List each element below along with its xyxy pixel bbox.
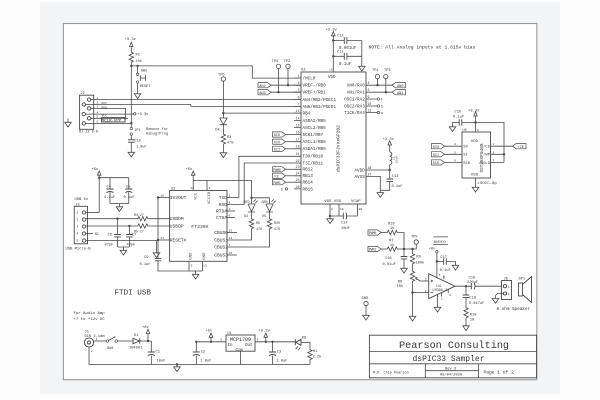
svg-text:VSS: VSS [334, 200, 342, 204]
svg-text:TP1: TP1 [372, 69, 379, 73]
connector J1 barrel jack [84, 331, 105, 348]
wire to D1 [117, 340, 133, 342]
capacitor C12 0.001uF [333, 35, 362, 52]
IC bottom pin stubs [330, 204, 363, 216]
power +3.3v [125, 38, 137, 51]
capacitor C1 10uF [148, 341, 166, 365]
svg-text:+3.3v: +3.3v [326, 29, 338, 33]
svg-text:Com: Com [236, 349, 244, 353]
capacitor C4 4.7uF [104, 185, 115, 203]
wire pin4 to +3.3v tap [86, 113, 134, 115]
svg-text:2: 2 [229, 207, 231, 211]
flag AN3 [258, 90, 271, 96]
svg-text:CBUS2: CBUS2 [214, 245, 228, 251]
capacitor C16 0.01uF [383, 249, 408, 273]
svg-text:+3.3v: +3.3v [125, 38, 137, 42]
capacitor C10 1.0uF [128, 140, 147, 151]
flag PWM0 pin23 [273, 167, 295, 172]
svg-text:5: 5 [298, 88, 300, 92]
power +3.3v tap [259, 330, 271, 343]
title block frame [369, 335, 536, 378]
svg-text:PGD: PGD [102, 106, 108, 110]
svg-text:17: 17 [296, 138, 300, 142]
node C11 tap [332, 55, 334, 57]
svg-text:C3: C3 [277, 350, 281, 354]
power +5v tap [206, 330, 214, 343]
svg-text:U5: U5 [463, 129, 467, 133]
svg-text:PWM1: PWM1 [369, 248, 377, 252]
svg-text:AVDD: AVDD [354, 168, 365, 173]
ground AVSS [377, 190, 384, 197]
svg-text:+3.3v: +3.3v [138, 113, 150, 117]
svg-text:LM386-3: LM386-3 [432, 289, 447, 293]
svg-text:470: 470 [274, 227, 280, 231]
resistor R1 2.2k [308, 348, 322, 364]
svg-text:ASCL1/RB8: ASCL1/RB8 [303, 140, 327, 145]
svg-text:27: 27 [368, 172, 372, 176]
svg-text:C16: C16 [385, 257, 392, 261]
svg-text:Remove for: Remove for [146, 127, 168, 132]
svg-text:PWM0: PWM0 [369, 231, 377, 235]
test point TP2 [284, 60, 291, 85]
svg-text:0.1uF: 0.1uF [440, 269, 451, 273]
svg-text:VCC: VCC [195, 192, 199, 200]
net label MCLR-VPP [102, 118, 126, 124]
resistor R20 470 [267, 218, 280, 231]
wire 3V3OUT [158, 198, 170, 259]
svg-text:OSC1/RA2: OSC1/RA2 [344, 97, 365, 102]
node LED rail [250, 197, 252, 199]
wire WP HOLD pullup [476, 123, 506, 163]
svg-text:R6: R6 [256, 221, 260, 225]
svg-text:47pF: 47pF [105, 243, 114, 247]
flag AN0 [392, 83, 406, 89]
flag SCK to SCK [432, 160, 463, 166]
svg-text:AN1/RA1: AN1/RA1 [347, 91, 365, 96]
svg-text:R2: R2 [136, 54, 140, 58]
svg-text:1k: 1k [390, 226, 395, 231]
ground left of C15 [449, 125, 456, 132]
svg-text:C12: C12 [337, 35, 344, 39]
svg-text:1: 1 [77, 212, 79, 215]
jumper JP1 [130, 127, 140, 139]
svg-text:SIO: SIO [274, 141, 280, 145]
capacitor C2 1.0uF [193, 341, 212, 365]
power +3.3v above U2 [326, 29, 338, 37]
svg-text:AN2: AN2 [259, 85, 265, 89]
svg-text:0.1uF: 0.1uF [392, 185, 403, 189]
svg-text:+5v: +5v [206, 330, 214, 334]
connector J3 USB [74, 203, 87, 244]
svg-text:15: 15 [229, 229, 233, 233]
svg-text:J2: J2 [81, 92, 85, 96]
svg-text:USBDM: USBDM [170, 216, 184, 222]
svg-text:470: 470 [227, 142, 234, 146]
svg-text:10uF: 10uF [341, 227, 350, 231]
svg-text:2: 2 [77, 219, 79, 222]
svg-text:3: 3 [425, 278, 427, 281]
svg-text:+8v: +8v [429, 247, 436, 251]
svg-text:4: 4 [298, 81, 300, 85]
svg-text:1: 1 [96, 338, 98, 341]
svg-text:FTDI USB: FTDI USB [115, 290, 152, 298]
svg-text:U2: U2 [301, 69, 306, 73]
svg-text:R19: R19 [388, 222, 395, 226]
svg-text:T1CK/RA4: T1CK/RA4 [344, 111, 365, 116]
svg-text:TXD: TXD [219, 195, 228, 201]
svg-text:3V3OUT: 3V3OUT [170, 195, 187, 201]
svg-text:7: 7 [493, 159, 495, 162]
svg-text:OSC2/RA3: OSC2/RA3 [344, 104, 365, 109]
svg-text:CBUS0: CBUS0 [214, 230, 228, 236]
svg-text:RTS#: RTS# [216, 209, 227, 215]
svg-text:SW2: SW2 [141, 69, 147, 73]
node mix [403, 248, 405, 250]
svg-text:4: 4 [229, 200, 231, 204]
svg-text:AN3: AN3 [259, 92, 265, 96]
stub NC pin4 [86, 232, 99, 236]
pushbutton SW2 RESET [134, 66, 150, 99]
capacitor C18 0.047uF [463, 286, 485, 306]
svg-text:0.1uF: 0.1uF [124, 196, 135, 200]
svg-text:T3I/RB11: T3I/RB11 [303, 161, 324, 166]
svg-text:220uF: 220uF [467, 281, 478, 285]
pin4 VSS ground [472, 178, 479, 192]
svg-text:R8: R8 [416, 255, 420, 259]
svg-text:C7: C7 [132, 234, 136, 238]
svg-text:3: 3 [368, 88, 370, 92]
svg-text:+7 to +12v DC: +7 to +12v DC [74, 318, 106, 322]
svg-text:19: 19 [340, 208, 344, 211]
svg-text:D8: D8 [302, 336, 306, 340]
speaker SP1 [519, 277, 532, 303]
U3 ground pins [189, 261, 203, 279]
svg-text:M.D. Chip Pearson: M.D. Chip Pearson [373, 371, 409, 376]
wire J3 pin1 [86, 212, 100, 214]
svg-text:C2: C2 [201, 350, 205, 354]
ground below C10 [128, 150, 135, 157]
test point TP2b [384, 69, 391, 92]
flag AN2 [258, 83, 271, 89]
op-amp U4 LM386 [425, 274, 455, 301]
capacitor C6 47pF [105, 218, 121, 248]
svg-text:2: 2 [91, 350, 93, 353]
svg-text:SP1: SP1 [519, 278, 526, 282]
wire CBUS2 to R20 [227, 230, 270, 247]
svg-text:5: 5 [454, 151, 456, 154]
power +3.3v above U5 [468, 109, 480, 117]
svg-text:SII: SII [433, 154, 439, 158]
svg-text:1N4001: 1N4001 [129, 347, 143, 351]
wire C2 to U1 [196, 341, 226, 343]
svg-text:Debug/Prog: Debug/Prog [146, 132, 168, 137]
stub CTS [227, 217, 235, 219]
resistor R8 100k [410, 248, 425, 266]
svg-text:+5v: +5v [186, 168, 194, 172]
svg-text:C1: C1 [156, 350, 161, 354]
svg-text:SCK: SCK [433, 162, 440, 166]
svg-text:22: 22 [296, 159, 300, 163]
ground below C4 C5 [110, 204, 129, 212]
wire AN3 to pin 5 [271, 91, 301, 93]
resistor R2 10k [129, 51, 142, 66]
svg-text:08/04/2020: 08/04/2020 [440, 373, 462, 378]
IC U5 SST25VF040B body [462, 129, 491, 178]
node D4 junction [222, 112, 224, 114]
svg-text:14: 14 [296, 116, 300, 120]
svg-text:Pearson Consulting: Pearson Consulting [399, 340, 509, 352]
wire wiper to +in [420, 280, 429, 282]
wire -in feedback [411, 291, 428, 293]
svg-text:CBUS3: CBUS3 [214, 253, 228, 259]
svg-text:RED: RED [244, 200, 250, 204]
svg-text:18: 18 [296, 145, 300, 149]
svg-text:25: 25 [296, 178, 300, 182]
flag SCK pin16 [273, 132, 295, 138]
svg-text:VREF+/RB1: VREF+/RB1 [303, 91, 327, 96]
svg-text:In: In [228, 344, 234, 348]
wire AN1 [373, 91, 392, 93]
svg-text:Page 1 of 2: Page 1 of 2 [484, 369, 515, 375]
wire PGD to IC pin 7 [86, 105, 302, 110]
svg-text:R3: R3 [227, 136, 231, 140]
ground below C6 C7 [118, 247, 130, 255]
svg-text:3: 3 [77, 226, 79, 229]
svg-text:AVSS: AVSS [354, 175, 365, 180]
svg-text:VDD: VDD [471, 140, 479, 144]
diode D4 [215, 113, 227, 133]
svg-text:SIO: SIO [433, 146, 439, 150]
svg-text:T3O/RB10: T3O/RB10 [303, 155, 324, 160]
svg-text:15uH: 15uH [396, 156, 399, 163]
svg-text:USB Micro-B: USB Micro-B [66, 247, 92, 252]
svg-text:1: 1 [508, 286, 510, 289]
power +3.3v above L1 [383, 138, 395, 146]
wire AN2 to pin 4 [271, 84, 301, 86]
svg-text:AUDIO: AUDIO [434, 241, 447, 245]
svg-text:E: E [281, 187, 283, 191]
diode D1 1N4001 [129, 334, 151, 351]
svg-text:9: 9 [368, 95, 370, 99]
svg-text:1.0uF: 1.0uF [136, 146, 147, 150]
ground near J2 [65, 119, 72, 128]
IC U2 right pin numbers [368, 81, 372, 176]
LED D8 [295, 336, 310, 350]
wire J1 pin2 ground rail [89, 347, 310, 364]
svg-text:4.7uF: 4.7uF [104, 196, 115, 200]
capacitor C11 0.1uF [333, 50, 362, 66]
node TP2b [385, 91, 387, 93]
wire mix node [404, 248, 416, 250]
svg-text:12: 12 [368, 108, 372, 112]
svg-text:16: 16 [229, 251, 233, 255]
svg-text:+3.3v: +3.3v [383, 138, 395, 142]
IC U2 left pin labels [303, 77, 337, 193]
wire J5 pin2 ground [492, 294, 503, 304]
svg-text:C6: C6 [108, 234, 112, 238]
wire MCLR to IC pin 1 [131, 66, 301, 78]
stub CBUS0 [227, 232, 237, 234]
svg-text:SII: SII [274, 149, 280, 153]
node TP1 [376, 84, 378, 86]
svg-text:GRN: GRN [262, 200, 268, 204]
power +8v tap [142, 326, 150, 342]
svg-text:0.01uF: 0.01uF [383, 263, 396, 267]
node R2 junction [130, 65, 132, 67]
power +5v above U3 [186, 168, 196, 191]
wire AVDD [373, 169, 390, 171]
test point TP1 [372, 69, 380, 85]
svg-text:RB14: RB14 [303, 181, 314, 186]
svg-text:/CE: /CE [518, 145, 524, 150]
op IC U2 body [301, 69, 366, 205]
svg-text:10k: 10k [397, 284, 404, 289]
svg-text:SO: SO [463, 146, 468, 150]
ground below R3 [220, 151, 227, 158]
svg-text:14: 14 [229, 236, 233, 240]
svg-text:CBUS1: CBUS1 [214, 238, 228, 244]
svg-text:SST25VF040B: SST25VF040B [480, 143, 485, 172]
svg-text:GND: GND [362, 297, 370, 301]
svg-text:1.0uF: 1.0uF [200, 360, 211, 364]
svg-text:7: 7 [229, 243, 231, 247]
flag CE pin24 [273, 173, 295, 178]
svg-text:NC: NC [95, 232, 99, 236]
svg-text:RB4: RB4 [303, 112, 311, 117]
wire RXD to pin 22 [227, 163, 294, 204]
svg-text:AN0: AN0 [397, 85, 403, 89]
svg-text:R20: R20 [274, 221, 280, 225]
svg-text:SOIC-8p: SOIC-8p [480, 182, 497, 186]
svg-text:2: 2 [425, 290, 427, 293]
svg-text:16: 16 [296, 130, 300, 134]
svg-text:GND: GND [189, 252, 193, 260]
svg-text:RXD: RXD [219, 202, 228, 208]
resistor R6 470 [249, 218, 262, 231]
svg-text:1: 1 [441, 298, 443, 301]
svg-text:dsPIC33FJxxxGP202: dsPIC33FJxxxGP202 [336, 125, 342, 172]
svg-text:J1: J1 [85, 331, 90, 335]
connector J2 [80, 92, 94, 129]
svg-text:VSS: VSS [324, 200, 332, 204]
svg-text:13: 13 [329, 69, 333, 72]
flag AN1 [392, 90, 406, 96]
svg-text:ASDA2/RB5: ASDA2/RB5 [303, 119, 327, 124]
svg-text:0.1uF: 0.1uF [140, 263, 151, 267]
resistor R7 1k [386, 239, 404, 251]
svg-text:J3: J3 [75, 203, 79, 207]
svg-text:w: w [381, 111, 383, 115]
power tap +3.3v [134, 113, 150, 118]
svg-text:R7: R7 [389, 239, 393, 243]
svg-text:AN4/RB2/PGEC1: AN4/RB2/PGEC1 [303, 98, 337, 103]
IC U2 right pin stubs [366, 85, 377, 176]
svg-text:1: 1 [229, 194, 231, 198]
svg-text:/CE: /CE [273, 174, 279, 178]
svg-text:U3: U3 [171, 187, 175, 191]
border frame [63, 24, 536, 380]
switch SW1 [106, 337, 117, 351]
svg-text:TP5: TP5 [411, 236, 418, 240]
svg-text:SW1: SW1 [107, 347, 114, 351]
svg-text:USB 5v: USB 5v [75, 198, 89, 202]
flag SII pin18 [273, 146, 295, 152]
svg-text:470: 470 [256, 227, 262, 231]
node AVDD [389, 169, 391, 171]
wire pin3 to MCLR-VPP [91, 108, 126, 119]
svg-text:8: 8 [331, 208, 333, 211]
svg-text:24: 24 [296, 172, 300, 176]
svg-text:AN0/RA0: AN0/RA0 [347, 84, 365, 89]
wire RESET# [157, 239, 170, 241]
svg-text:U1: U1 [228, 331, 232, 335]
svg-text:C10: C10 [135, 140, 141, 144]
svg-text:Rev 3: Rev 3 [445, 368, 456, 372]
regulator U1 MCP1700 [220, 331, 258, 353]
svg-text:FT230X: FT230X [191, 224, 208, 230]
svg-text:10uF: 10uF [157, 360, 166, 364]
resistor R19 1k [386, 222, 404, 249]
wire PGC to IC pin 6 [91, 100, 301, 106]
ground on rail [174, 363, 181, 371]
pin 13 VDD stub [329, 36, 333, 72]
svg-text:RESET#: RESET# [170, 238, 187, 244]
svg-text:JP1: JP1 [135, 128, 141, 132]
wire VSS join [330, 215, 358, 217]
flag SII to SI [432, 152, 463, 158]
svg-text:20: 20 [359, 208, 363, 211]
svg-text:VCAP: VCAP [351, 200, 361, 204]
svg-text:J5: J5 [504, 278, 508, 282]
svg-text:10: 10 [368, 102, 372, 106]
svg-text:+8v: +8v [142, 326, 150, 330]
svg-text:3: 3 [493, 151, 495, 154]
node out [465, 285, 467, 287]
test point TP4 [272, 60, 281, 92]
svg-text:AN5/RB3/PGED1: AN5/RB3/PGED1 [303, 105, 337, 110]
net tag GND [362, 297, 370, 320]
resistor R10 10 [464, 307, 477, 324]
svg-text:+3.3v: +3.3v [259, 330, 271, 334]
svg-text:ASDA1/RB9: ASDA1/RB9 [303, 147, 327, 152]
svg-text:C5: C5 [126, 185, 130, 189]
capacitor C17 0.1uF [436, 256, 456, 273]
svg-text:C19: C19 [469, 276, 476, 280]
svg-text:10k: 10k [136, 59, 142, 64]
svg-text:R1: R1 [313, 350, 318, 354]
svg-text:+3.3v: +3.3v [468, 109, 480, 113]
svg-text:8 ohm Speaker: 8 ohm Speaker [497, 307, 531, 312]
IC U2 left pin stubs [294, 78, 301, 189]
wire AN0 [373, 84, 392, 86]
wire USBDP [86, 225, 137, 227]
svg-text:8: 8 [477, 129, 479, 132]
svg-text:5: 5 [77, 240, 79, 243]
svg-text:SI: SI [463, 154, 468, 158]
svg-text:RB15: RB15 [303, 187, 314, 192]
wire USBDM [86, 218, 137, 220]
flag PWM1 pin25 [273, 180, 295, 185]
ground right of caps [359, 64, 366, 71]
net stub E pin26 [281, 187, 288, 191]
flag CE out [513, 144, 527, 150]
svg-text:3: 3 [257, 339, 259, 342]
svg-text:1: 1 [493, 143, 495, 146]
svg-text:RB13: RB13 [303, 174, 314, 179]
IC U2 left pin numbers [296, 74, 300, 189]
svg-text:6: 6 [298, 96, 300, 100]
wire J3 pin5 shield [86, 241, 160, 258]
